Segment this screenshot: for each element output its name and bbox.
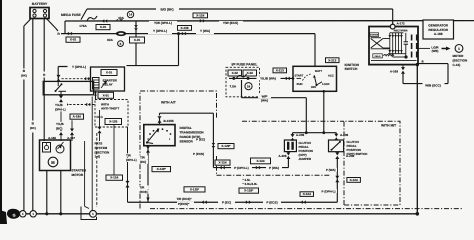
svg-text:MEGA FUSE: MEGA FUSE [61,13,82,17]
svg-text:X-01: X-01 [103,93,110,97]
svg-text:7.5A: 7.5A [230,85,237,89]
svg-text:Y/W (ECS): Y/W (ECS) [223,21,238,25]
svg-text:B-1005: B-1005 [164,119,174,123]
svg-text:A-206: A-206 [296,133,305,137]
svg-text:MOTOR: MOTOR [72,173,84,177]
svg-text:W/B (SCC): W/B (SCC) [425,83,440,87]
svg-text:STATOR: STATOR [370,34,378,37]
svg-text:X-02: X-02 [232,71,239,75]
svg-text:Y/L/B (WA): Y/L/B (WA) [260,77,276,81]
svg-text:P (EC): P (EC) [222,200,231,204]
svg-text:C-15): C-15) [453,63,461,67]
svg-text:1-4): 1-4) [95,155,101,159]
svg-text:(SECTION: (SECTION [453,59,469,63]
svg-text:FIELD: FIELD [375,55,381,58]
svg-text:X-124: X-124 [256,159,264,163]
svg-text:X-129*: X-129* [157,167,167,171]
svg-text:RUN: RUN [297,83,303,86]
svg-text:SENSOR: SENSOR [180,139,194,143]
svg-text:24: 24 [247,84,251,88]
svg-text:A-206: A-206 [346,154,355,158]
svg-text:X-135: X-135 [109,120,117,124]
svg-text:T/R: T/R [140,156,146,160]
svg-text:T/R (ECS)*: T/R (ECS)* [177,197,193,201]
svg-text:X-213: X-213 [276,68,284,72]
svg-text:ACC: ACC [328,75,334,78]
svg-text:A-206: A-206 [278,154,287,158]
svg-text:X-136: X-136 [180,26,188,30]
svg-text:Y/L/B: Y/L/B [55,103,64,107]
svg-text:X-01: X-01 [70,38,77,42]
svg-text:I/P FUSE PANEL: I/P FUSE PANEL [232,63,258,67]
svg-text:P(ECS)*: P(ECS)* [178,202,190,206]
svg-text:X-124: X-124 [350,178,358,182]
svg-text:METER: METER [453,54,465,58]
svg-text:A-206: A-206 [340,133,349,137]
svg-text:X-124: X-124 [303,192,311,196]
svg-text:PATS: PATS [95,142,103,146]
svg-text:Y (3PH-L): Y (3PH-L) [153,29,167,33]
svg-text:START: START [295,75,304,78]
svg-text:P (ECS): P (ECS) [193,152,204,156]
svg-text:T/R: T/R [126,154,132,158]
svg-text:Y (WA): Y (WA) [200,29,210,33]
svg-text:X-124: X-124 [218,161,226,165]
svg-text:B/O (BK): B/O (BK) [160,8,173,12]
svg-text:(3PH-L): (3PH-L) [126,158,137,162]
svg-text:WITH M/T: WITH M/T [381,123,396,127]
svg-text:(ECS): (ECS) [140,190,148,194]
svg-text:X-213: X-213 [328,58,336,62]
svg-text:G: G [13,213,16,217]
svg-text:X-129*: X-129* [221,144,231,148]
svg-text:175A: 175A [79,24,87,28]
svg-text:(BC): (BC) [56,126,62,130]
svg-text:1: 1 [458,47,460,51]
svg-text:P (EC): P (EC) [196,138,205,142]
svg-text:Y/W (3PH-L): Y/W (3PH-L) [154,21,172,25]
svg-text:T/R: T/R [140,186,146,190]
svg-text:SWITCH: SWITCH [345,67,358,71]
svg-text:X-129*: X-129* [190,187,200,191]
svg-text:LOCK: LOCK [322,83,330,86]
svg-text:A-184: A-184 [73,115,82,119]
svg-text:BATT: BATT [315,70,322,73]
svg-text:OFF: OFF [311,86,317,89]
svg-text:80A: 80A [107,38,113,42]
svg-text:X-124: X-124 [110,176,118,180]
svg-text:X-124: X-124 [196,13,204,17]
svg-text:RELAY: RELAY [103,83,114,87]
svg-text:14: 14 [129,13,133,17]
svg-text:X-01: X-01 [134,38,141,42]
svg-text:P (DPH-L): P (DPH-L) [322,189,336,193]
svg-text:DLC: DLC [97,115,104,119]
svg-text:P (DPH-L): P (DPH-L) [234,166,248,170]
svg-text:X-01: X-01 [106,71,113,75]
svg-text:30A: 30A [118,16,124,20]
svg-text:* 3.0L/4.0L: * 3.0L/4.0L [243,182,258,186]
svg-text:M: M [51,160,55,165]
svg-text:(3PH-L): (3PH-L) [55,107,66,111]
svg-text:(WS): (WS) [432,49,439,53]
svg-text:P (ECS): P (ECS) [266,201,277,205]
svg-text:A-172: A-172 [397,22,406,26]
svg-text:X-01: X-01 [100,25,107,29]
svg-text:(BK): (BK) [21,74,27,78]
svg-text:ANTI-THEFT: ANTI-THEFT [101,107,119,111]
svg-text:(WA): (WA) [261,98,268,102]
svg-text:(BC): (BC) [30,126,36,130]
svg-text:BATTERY: BATTERY [32,2,48,6]
svg-text:P (WA): P (WA) [269,166,279,170]
svg-text:A-169: A-169 [390,69,399,73]
svg-text:TRANSMISSION: TRANSMISSION [180,131,205,135]
svg-text:WITH A/T: WITH A/T [161,100,176,104]
svg-text:(EC): (EC) [140,160,146,164]
svg-text:X-02: X-02 [247,71,254,75]
svg-text:DIGITAL: DIGITAL [180,126,192,130]
svg-text:Y/L/B: Y/L/B [56,122,65,126]
svg-text:X-129*: X-129* [244,189,254,193]
svg-text:JUMPER: JUMPER [299,157,312,161]
svg-text:P (WA): P (WA) [326,168,336,172]
svg-text:RECTIFIER: RECTIFIER [394,29,408,32]
svg-text:Y (3PH-L): Y (3PH-L) [72,65,86,69]
svg-text:A-168: A-168 [434,32,443,36]
